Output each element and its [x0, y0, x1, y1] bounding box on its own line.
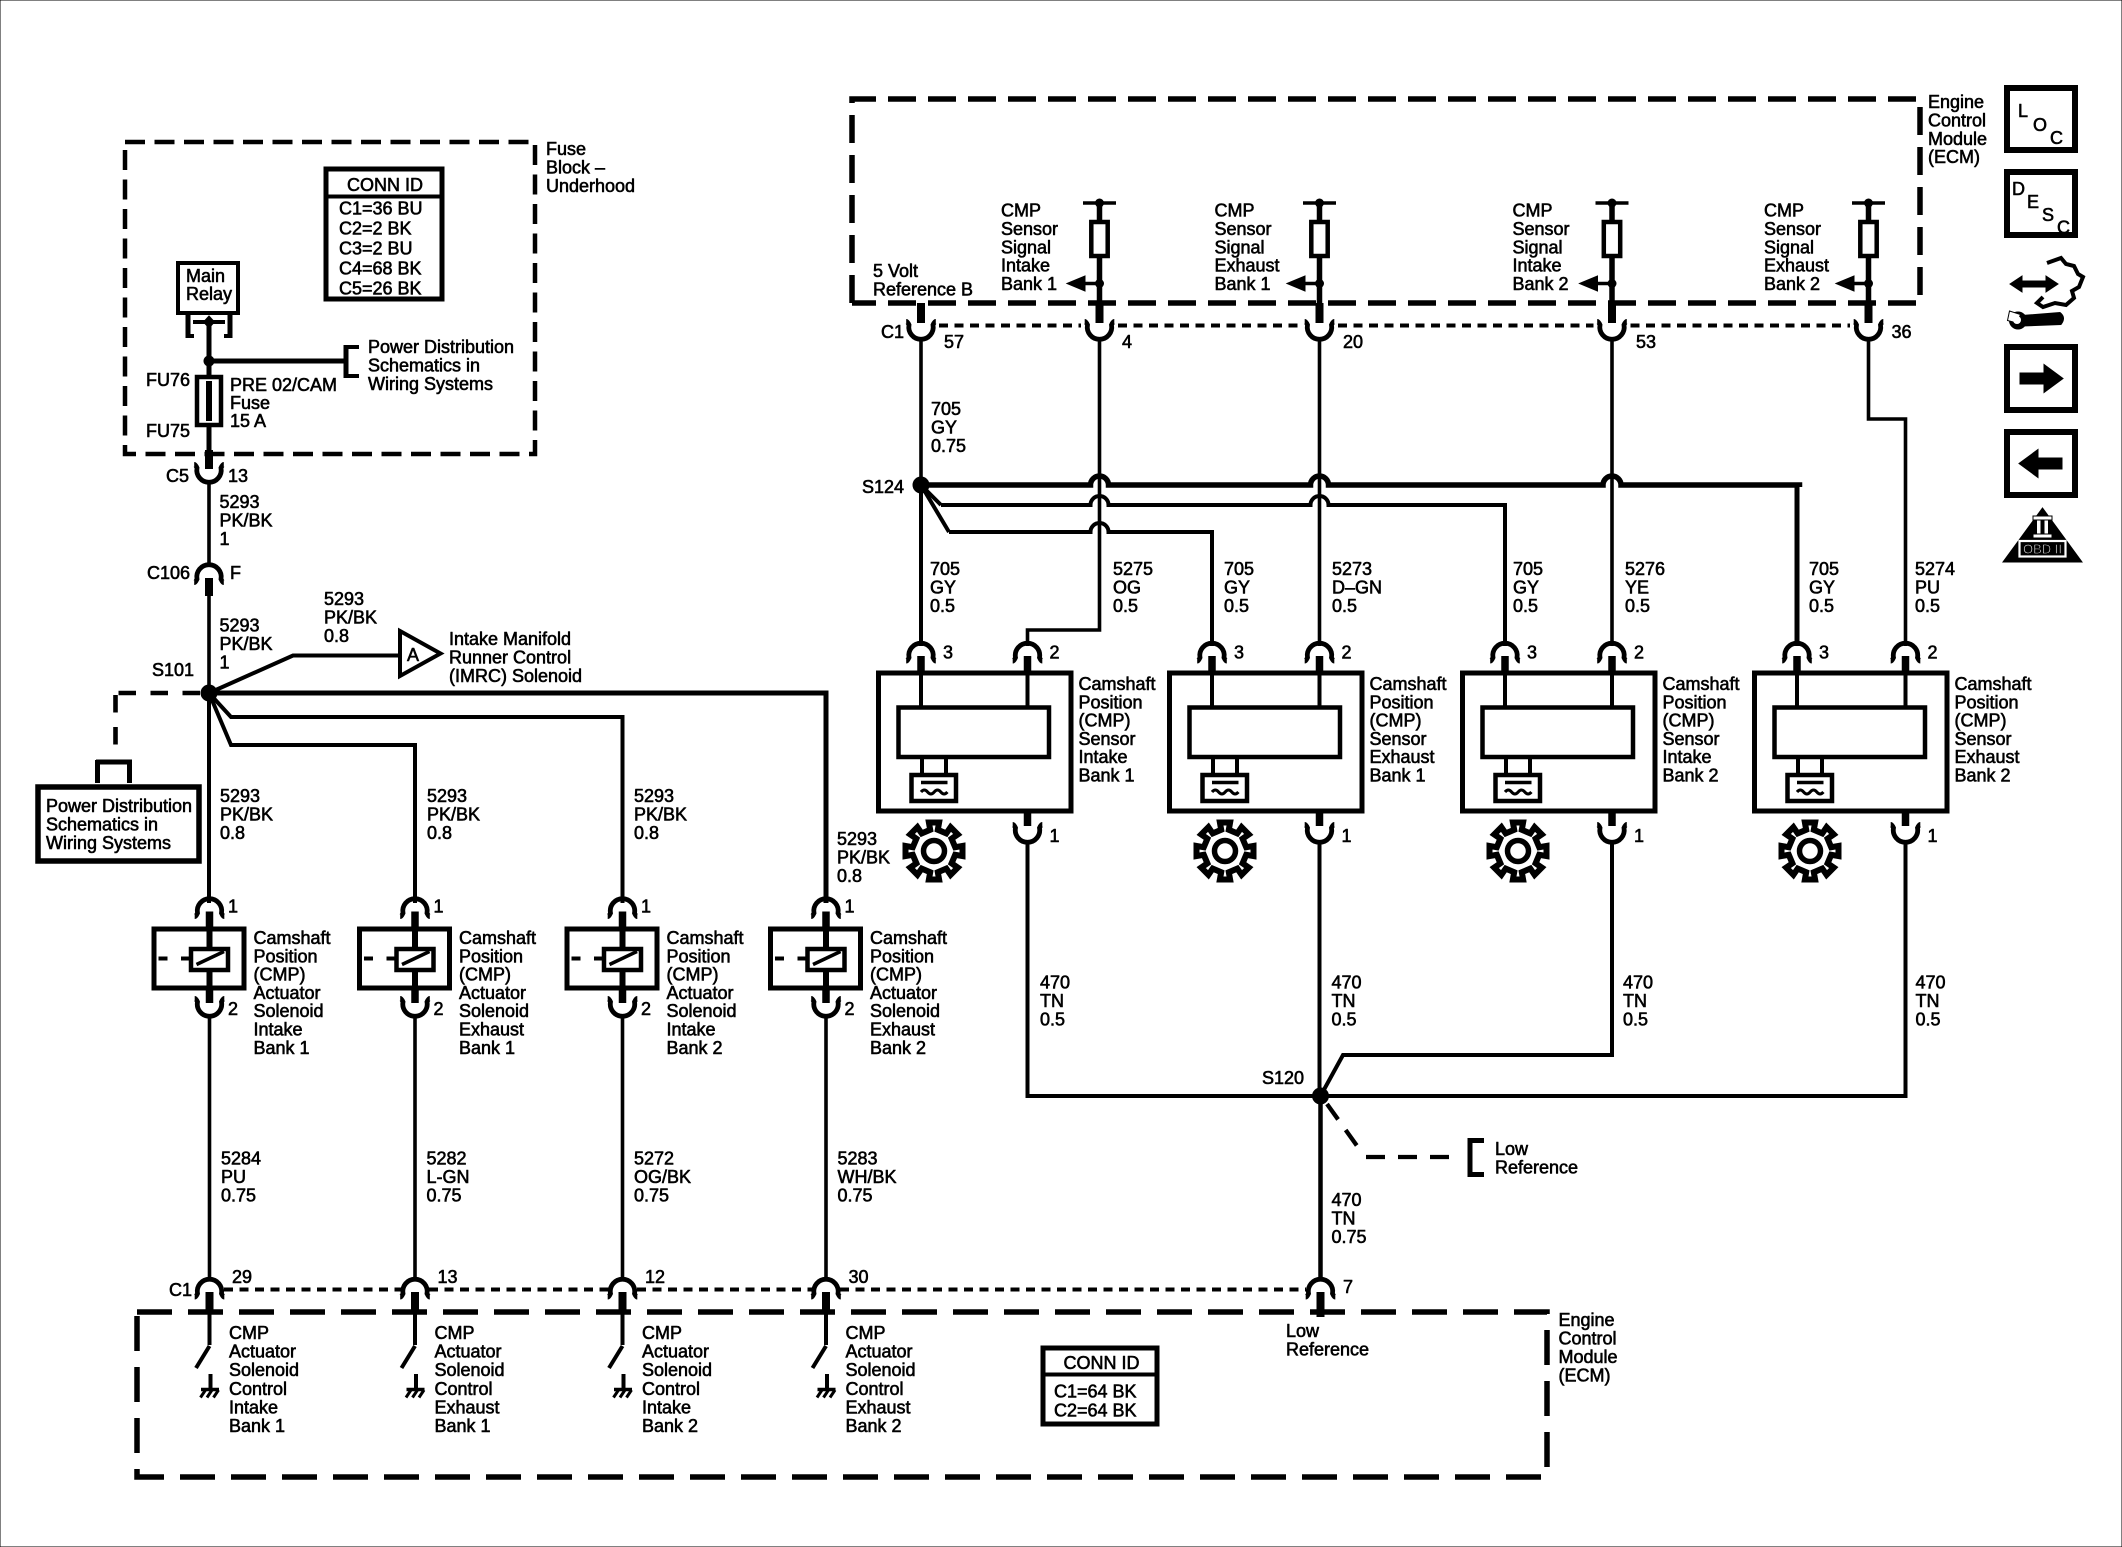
svg-text:Bank 1: Bank 1 — [459, 1038, 515, 1058]
pull-up resistor (exhaust bank 1) — [1303, 199, 1336, 304]
reluctor gear — [1490, 823, 1547, 880]
svg-text:3: 3 — [1819, 643, 1829, 663]
svg-text:Bank 1: Bank 1 — [229, 1416, 285, 1436]
connector pin 1 (CMP actuator solenoid intake bank 2) — [608, 899, 638, 917]
svg-text:(CMP): (CMP) — [1955, 711, 2007, 731]
C1 pin 53 male terminal — [1608, 303, 1616, 323]
svg-text:Intake: Intake — [1513, 256, 1562, 276]
svg-text:Sensor: Sensor — [1079, 729, 1136, 749]
connector pin 2 — [1013, 643, 1043, 661]
svg-text:Reference: Reference — [1286, 1339, 1369, 1359]
svg-text:Block –: Block – — [546, 157, 605, 177]
connector pin 3 (CMP sensor intake bank 1) — [906, 643, 936, 661]
svg-text:TN: TN — [1332, 1208, 1356, 1228]
svg-text:5293: 5293 — [837, 829, 877, 849]
svg-text:Camshaft: Camshaft — [1955, 674, 2032, 694]
splice S101 — [201, 685, 218, 702]
svg-text:1: 1 — [1050, 826, 1060, 846]
svg-text:0.8: 0.8 — [324, 626, 349, 646]
svg-text:Main: Main — [186, 266, 225, 286]
svg-text:5293: 5293 — [324, 589, 364, 609]
svg-text:O: O — [2033, 115, 2047, 135]
svg-text:Schematics in: Schematics in — [46, 814, 158, 834]
C1 12 male pin into ECM — [619, 1292, 627, 1313]
svg-text:3: 3 — [1234, 643, 1244, 663]
wire 5282 L-GN to ECM — [413, 1017, 417, 1279]
svg-text:PK/BK: PK/BK — [837, 847, 890, 867]
svg-text:470: 470 — [1623, 973, 1653, 993]
svg-text:5293: 5293 — [427, 786, 467, 806]
connector C5 terminal 13 — [194, 464, 224, 482]
C1 pin 36 male terminal — [1865, 303, 1873, 323]
signal tap arrow — [1836, 276, 1873, 291]
svg-text:Control: Control — [435, 1379, 493, 1399]
wire junction to power distribution bracket — [209, 359, 346, 364]
svg-text:Low: Low — [1286, 1321, 1320, 1341]
svg-text:Relay: Relay — [186, 284, 232, 304]
wire S101 to branch 4 (exhaust bank 2) — [209, 693, 826, 903]
svg-text:5272: 5272 — [634, 1149, 674, 1169]
svg-text:470: 470 — [1916, 973, 1946, 993]
svg-text:Intake: Intake — [254, 1020, 303, 1040]
svg-text:Signal: Signal — [1764, 237, 1814, 257]
svg-text:(IMRC) Solenoid: (IMRC) Solenoid — [449, 666, 582, 686]
svg-text:Bank 2: Bank 2 — [642, 1416, 698, 1436]
svg-text:PK/BK: PK/BK — [427, 804, 480, 824]
svg-text:705: 705 — [1224, 559, 1254, 579]
svg-text:C106: C106 — [147, 563, 190, 583]
connector pin 2 — [608, 998, 638, 1016]
svg-text:0.5: 0.5 — [1625, 596, 1650, 616]
svg-text:Sensor: Sensor — [1001, 219, 1058, 239]
svg-text:15 A: 15 A — [230, 411, 266, 431]
svg-text:Intake: Intake — [1663, 747, 1712, 767]
svg-text:Intake: Intake — [667, 1020, 716, 1040]
svg-text:Solenoid: Solenoid — [435, 1360, 505, 1380]
svg-text:(ECM): (ECM) — [1928, 147, 1980, 167]
svg-text:TN: TN — [1040, 991, 1064, 1011]
svg-text:C3=2 BU: C3=2 BU — [339, 239, 413, 259]
main relay — [178, 263, 238, 313]
switch blade — [813, 1346, 827, 1368]
svg-text:CMP: CMP — [1215, 201, 1255, 221]
svg-text:OG: OG — [1113, 577, 1141, 597]
svg-text:C4=68 BK: C4=68 BK — [339, 259, 422, 279]
junction dot above fuse — [204, 356, 215, 367]
svg-text:Exhaust: Exhaust — [1370, 747, 1435, 767]
svg-text:Position: Position — [1955, 692, 2019, 712]
svg-text:1: 1 — [1342, 826, 1352, 846]
svg-text:0.75: 0.75 — [1332, 1227, 1367, 1247]
svg-text:5283: 5283 — [838, 1149, 878, 1169]
svg-text:Solenoid: Solenoid — [870, 1001, 940, 1021]
svg-text:CMP: CMP — [229, 1323, 269, 1343]
svg-text:Position: Position — [667, 946, 731, 966]
svg-text:CMP: CMP — [435, 1323, 475, 1343]
svg-text:0.8: 0.8 — [427, 823, 452, 843]
svg-text:Exhaust: Exhaust — [1764, 256, 1829, 276]
svg-text:C2=2 BK: C2=2 BK — [339, 219, 412, 239]
svg-text:(ECM): (ECM) — [1559, 1366, 1611, 1386]
wire S101 to branch 3 (intake bank 2) — [209, 693, 623, 903]
svg-text:WH/BK: WH/BK — [838, 1167, 897, 1187]
wire S124 to sensor 2 pin 3 (705 GY 0.5) — [921, 485, 949, 532]
svg-text:Position: Position — [1663, 692, 1727, 712]
connector C1 terminal 7 — [1306, 1279, 1336, 1297]
svg-text:1: 1 — [641, 897, 651, 917]
fuse FU76/FU75 PRE 02/CAM 15 A — [197, 377, 221, 425]
svg-text:2: 2 — [1050, 643, 1060, 663]
svg-text:CONN ID: CONN ID — [347, 175, 423, 195]
svg-text:Exhaust: Exhaust — [459, 1020, 524, 1040]
signal tap arrow — [1067, 276, 1104, 291]
svg-text:Actuator: Actuator — [846, 1342, 913, 1362]
svg-text:TN: TN — [1916, 991, 1940, 1011]
solenoid coil symbol — [604, 949, 641, 970]
ground — [406, 1390, 425, 1398]
wire S124 to sensor 4 pin 3 (705 GY 0.5) — [929, 476, 1800, 487]
svg-text:OBD II: OBD II — [2023, 542, 2062, 557]
svg-text:Runner Control: Runner Control — [449, 647, 571, 667]
CMP sensor exhaust bank 2 box — [1755, 673, 1948, 811]
pickup connector — [1203, 775, 1248, 801]
svg-text:C5=26 BK: C5=26 BK — [339, 279, 422, 299]
svg-text:Sensor: Sensor — [1663, 729, 1720, 749]
connector C106 terminal F — [194, 565, 224, 583]
svg-text:5274: 5274 — [1915, 559, 1955, 579]
svg-text:Solenoid: Solenoid — [229, 1360, 299, 1380]
pickup connector — [912, 775, 957, 801]
svg-text:Intake Manifold: Intake Manifold — [449, 629, 571, 649]
switch blade — [196, 1346, 210, 1368]
CMP actuator solenoid control driver (exhaust bank 2) — [824, 1313, 828, 1345]
svg-text:D: D — [2012, 179, 2025, 199]
svg-text:(CMP): (CMP) — [1370, 711, 1422, 731]
C106 male pin — [205, 578, 213, 596]
svg-text:PU: PU — [1915, 577, 1940, 597]
svg-text:S: S — [2042, 205, 2054, 225]
svg-text:Camshaft: Camshaft — [1079, 674, 1156, 694]
svg-text:53: 53 — [1636, 332, 1656, 352]
svg-text:4: 4 — [1122, 332, 1132, 352]
connector pin 1 — [1891, 824, 1921, 842]
svg-text:705: 705 — [1809, 559, 1839, 579]
LOC icon — [2007, 88, 2075, 150]
svg-text:L: L — [2018, 101, 2028, 121]
svg-text:Camshaft: Camshaft — [1663, 674, 1740, 694]
connector C1 terminal 12 — [608, 1279, 638, 1297]
wire relay to junction — [207, 326, 212, 361]
diagnostic pointer icon (arrows and wrench) — [2008, 258, 2084, 330]
svg-text:C1=64 BK: C1=64 BK — [1054, 1382, 1137, 1402]
connector C1 terminal 30 — [811, 1279, 841, 1297]
ground lead — [825, 1374, 829, 1389]
CONN ID table (ECM) — [1043, 1348, 1157, 1424]
svg-text:CONN ID: CONN ID — [1064, 1353, 1140, 1373]
svg-text:Control: Control — [1559, 1329, 1617, 1349]
ground — [817, 1390, 836, 1398]
svg-text:1: 1 — [228, 897, 238, 917]
svg-text:Engine: Engine — [1928, 92, 1984, 112]
svg-text:GY: GY — [1809, 577, 1835, 597]
svg-text:Underhood: Underhood — [546, 176, 635, 196]
power distribution schematics box — [38, 787, 199, 861]
svg-text:Actuator: Actuator — [642, 1342, 709, 1362]
svg-text:2: 2 — [434, 999, 444, 1019]
svg-text:Sensor: Sensor — [1513, 219, 1570, 239]
svg-text:2: 2 — [228, 999, 238, 1019]
svg-text:5293: 5293 — [220, 492, 260, 512]
fuse block dashed enclosure — [125, 142, 535, 454]
svg-text:PK/BK: PK/BK — [220, 634, 273, 654]
svg-text:Sensor: Sensor — [1764, 219, 1821, 239]
connector C1 dotted interface line (top) — [939, 324, 1850, 328]
svg-text:Power Distribution: Power Distribution — [368, 337, 514, 357]
svg-text:30: 30 — [849, 1267, 869, 1287]
svg-text:0.75: 0.75 — [221, 1185, 256, 1205]
wire 5275 OG 0.5 (pin 4 to sensor 1 pin 2) — [1028, 337, 1100, 646]
CMP sensor intake bank 1 box — [879, 673, 1072, 811]
svg-text:C: C — [2050, 128, 2063, 148]
svg-text:0.5: 0.5 — [1113, 596, 1138, 616]
svg-text:Schematics in: Schematics in — [368, 355, 480, 375]
sensor element — [1190, 708, 1341, 758]
CMP actuator solenoid control driver (intake bank 1) — [208, 1313, 212, 1345]
svg-text:Control: Control — [229, 1379, 287, 1399]
svg-text:(CMP): (CMP) — [1079, 711, 1131, 731]
pull-up resistor (intake bank 1) — [1083, 199, 1116, 304]
svg-text:2: 2 — [641, 999, 651, 1019]
svg-text:Camshaft: Camshaft — [667, 928, 744, 948]
svg-text:470: 470 — [1332, 973, 1362, 993]
svg-text:(CMP): (CMP) — [870, 965, 922, 985]
svg-text:1: 1 — [845, 897, 855, 917]
svg-text:CMP: CMP — [1513, 201, 1553, 221]
CMP actuator solenoid intake bank 2 box — [567, 929, 657, 988]
svg-text:13: 13 — [228, 466, 248, 486]
pin 1 male terminal — [206, 912, 214, 932]
connector C1 terminal 4 — [1085, 321, 1115, 339]
svg-text:Actuator: Actuator — [254, 983, 321, 1003]
sensor element — [899, 708, 1050, 758]
switch blade — [609, 1346, 623, 1368]
connector C1 terminal 29 — [195, 1279, 225, 1297]
CMP actuator solenoid control driver (intake bank 2) — [621, 1313, 625, 1345]
connector C1 terminal 20 — [1305, 321, 1335, 339]
svg-text:0.8: 0.8 — [220, 823, 245, 843]
C1 pin 20 male terminal — [1316, 303, 1324, 323]
svg-text:2: 2 — [1928, 643, 1938, 663]
connector pin 1 — [1013, 824, 1043, 842]
svg-text:Camshaft: Camshaft — [870, 928, 947, 948]
svg-text:A: A — [407, 645, 419, 665]
svg-text:CMP: CMP — [1764, 201, 1804, 221]
connector C1 terminal 36 — [1854, 321, 1884, 339]
pin 1 male terminal — [619, 912, 627, 932]
svg-text:Solenoid: Solenoid — [667, 1001, 737, 1021]
CONN ID table (fuse block) — [326, 169, 442, 299]
sensor element — [1775, 708, 1926, 758]
svg-text:C5: C5 — [166, 466, 189, 486]
svg-text:PRE 02/CAM: PRE 02/CAM — [230, 375, 337, 395]
svg-text:PK/BK: PK/BK — [220, 510, 273, 530]
svg-text:GY: GY — [1224, 577, 1250, 597]
svg-text:1: 1 — [1928, 826, 1938, 846]
svg-text:Exhaust: Exhaust — [1955, 747, 2020, 767]
svg-text:Bank 2: Bank 2 — [1955, 766, 2011, 786]
ground — [201, 1390, 220, 1398]
connector C1 terminal 57 — [906, 321, 936, 339]
svg-text:Signal: Signal — [1215, 237, 1265, 257]
CMP sensor intake bank 2 box — [1463, 673, 1656, 811]
signal tap arrow — [1287, 276, 1324, 291]
svg-text:0.5: 0.5 — [1040, 1009, 1065, 1029]
solenoid coil symbol — [397, 949, 434, 970]
svg-text:0.8: 0.8 — [634, 823, 659, 843]
wire 470 TN 0.75 S120 to pin 7 — [1318, 1096, 1323, 1280]
svg-text:Sensor: Sensor — [1955, 729, 2012, 749]
svg-text:Exhaust: Exhaust — [870, 1020, 935, 1040]
svg-text:5275: 5275 — [1113, 559, 1153, 579]
svg-text:Actuator: Actuator — [229, 1342, 296, 1362]
svg-text:Bank 1: Bank 1 — [1370, 766, 1426, 786]
svg-text:0.5: 0.5 — [1623, 1009, 1648, 1029]
svg-text:Intake: Intake — [229, 1397, 278, 1417]
svg-text:C1: C1 — [169, 1280, 192, 1300]
svg-text:Camshaft: Camshaft — [1370, 674, 1447, 694]
power distribution reference bracket — [344, 345, 359, 378]
connector pin 2 — [1305, 643, 1335, 661]
svg-text:2: 2 — [845, 999, 855, 1019]
svg-text:5293: 5293 — [634, 786, 674, 806]
connector C1 dotted interface line — [224, 1288, 1306, 1292]
svg-text:Signal: Signal — [1001, 237, 1051, 257]
svg-text:Actuator: Actuator — [870, 983, 937, 1003]
IMRC reference triangle A — [400, 631, 441, 676]
svg-text:57: 57 — [944, 332, 964, 352]
svg-text:Bank 1: Bank 1 — [1215, 274, 1271, 294]
svg-text:Actuator: Actuator — [435, 1342, 502, 1362]
svg-text:0.75: 0.75 — [931, 436, 966, 456]
svg-text:Module: Module — [1559, 1347, 1618, 1367]
svg-text:(CMP): (CMP) — [254, 965, 306, 985]
svg-text:Intake: Intake — [1001, 256, 1050, 276]
svg-text:PU: PU — [221, 1167, 246, 1187]
wire C106 to S101 — [207, 596, 211, 693]
svg-text:S120: S120 — [1262, 1068, 1304, 1088]
sensor element — [1483, 708, 1634, 758]
pickup connector — [1788, 775, 1833, 801]
ground — [614, 1390, 633, 1398]
svg-text:(CMP): (CMP) — [459, 965, 511, 985]
svg-text:CMP: CMP — [846, 1323, 886, 1343]
CMP actuator solenoid intake bank 1 box — [154, 929, 244, 988]
svg-text:Wiring Systems: Wiring Systems — [368, 374, 493, 394]
solenoid coil symbol — [191, 949, 228, 970]
svg-text:Solenoid: Solenoid — [459, 1001, 529, 1021]
svg-text:OG/BK: OG/BK — [634, 1167, 691, 1187]
svg-text:YE: YE — [1625, 577, 1649, 597]
CMP actuator solenoid exhaust bank 2 box — [771, 929, 861, 988]
svg-text:Bank 1: Bank 1 — [1001, 274, 1057, 294]
wire 5284 PU to ECM — [208, 1017, 212, 1279]
svg-text:Control: Control — [642, 1379, 700, 1399]
svg-text:(CMP): (CMP) — [1663, 711, 1715, 731]
svg-text:E: E — [2027, 192, 2039, 212]
svg-text:Position: Position — [459, 946, 523, 966]
svg-text:S101: S101 — [152, 660, 194, 680]
wire S101 to branch 1 (intake bank 1) — [207, 693, 211, 903]
svg-text:0.5: 0.5 — [1513, 596, 1538, 616]
wire 470 TN 0.5 sensor 2 to S120 — [1318, 844, 1322, 1096]
svg-text:Bank 1: Bank 1 — [435, 1416, 491, 1436]
svg-text:FU75: FU75 — [146, 421, 190, 441]
pin 2 male terminal — [411, 988, 419, 1003]
svg-text:Bank 2: Bank 2 — [667, 1038, 723, 1058]
splice S124 — [913, 477, 930, 494]
svg-text:705: 705 — [930, 559, 960, 579]
svg-text:Bank 1: Bank 1 — [1079, 766, 1135, 786]
wire S101 to IMRC solenoid — [209, 656, 400, 694]
svg-text:C1=36 BU: C1=36 BU — [339, 199, 423, 219]
svg-text:Solenoid: Solenoid — [642, 1360, 712, 1380]
svg-text:12: 12 — [645, 1267, 665, 1287]
low reference pointer bracket — [1468, 1138, 1484, 1177]
svg-text:CMP: CMP — [1001, 201, 1041, 221]
connector pin 3 (CMP sensor intake bank 2) — [1490, 643, 1520, 661]
svg-text:0.5: 0.5 — [1332, 1009, 1357, 1029]
svg-text:0.5: 0.5 — [1916, 1009, 1941, 1029]
svg-text:(CMP): (CMP) — [667, 965, 719, 985]
connector pin 2 — [400, 998, 430, 1016]
wire fuse to C5 — [207, 425, 212, 450]
svg-text:Position: Position — [1079, 692, 1143, 712]
connector pin 1 (CMP actuator solenoid intake bank 1) — [195, 899, 225, 917]
svg-text:PK/BK: PK/BK — [324, 607, 377, 627]
C1 29 male pin into ECM — [206, 1292, 214, 1313]
svg-text:1: 1 — [220, 529, 230, 549]
wire 5274 PU 0.5 (pin 36 to sensor 4 pin 2) — [1869, 337, 1906, 646]
svg-text:0.75: 0.75 — [427, 1185, 462, 1205]
svg-text:1: 1 — [434, 897, 444, 917]
wire 5276 YE 0.5 (pin 53 to sensor 3 pin 2) — [1610, 337, 1614, 646]
reluctor gear — [1782, 823, 1839, 880]
svg-text:705: 705 — [931, 399, 961, 419]
svg-text:Fuse: Fuse — [230, 393, 270, 413]
connector pin 3 (CMP sensor exhaust bank 2) — [1782, 643, 1812, 661]
solenoid coil symbol — [808, 949, 845, 970]
svg-text:5282: 5282 — [427, 1149, 467, 1169]
C1 13 male pin into ECM — [411, 1292, 419, 1313]
svg-text:2: 2 — [1634, 643, 1644, 663]
svg-text:20: 20 — [1343, 332, 1363, 352]
CMP sensor exhaust bank 1 box — [1170, 673, 1363, 811]
relay connector bracket — [186, 315, 232, 338]
svg-text:CMP: CMP — [642, 1323, 682, 1343]
svg-text:5276: 5276 — [1625, 559, 1665, 579]
svg-text:Control: Control — [846, 1379, 904, 1399]
svg-text:Low: Low — [1495, 1139, 1529, 1159]
svg-text:0.75: 0.75 — [634, 1185, 669, 1205]
splice S120 — [1312, 1088, 1329, 1105]
C1 pin 4 male terminal — [1096, 303, 1104, 323]
svg-text:GY: GY — [931, 417, 957, 437]
svg-text:Bank 2: Bank 2 — [846, 1416, 902, 1436]
svg-text:Wiring Systems: Wiring Systems — [46, 833, 171, 853]
svg-text:Position: Position — [870, 946, 934, 966]
switch blade — [402, 1346, 416, 1368]
svg-text:Solenoid: Solenoid — [254, 1001, 324, 1021]
